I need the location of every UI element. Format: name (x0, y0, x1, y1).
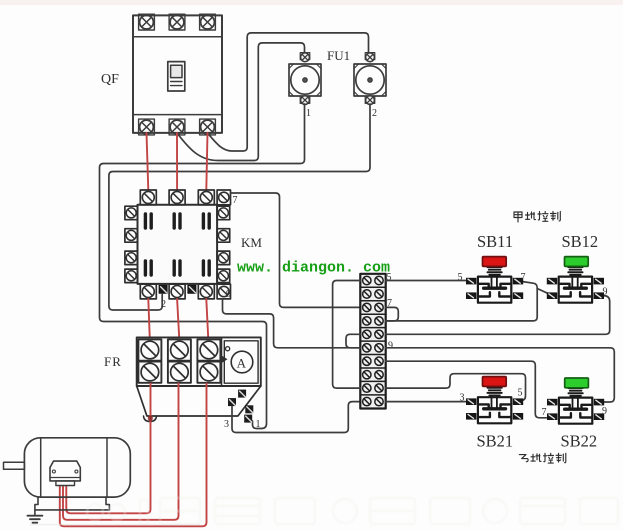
FR small indicator screw (226, 347, 230, 351)
red junction blob at FR foot (148, 416, 153, 421)
faint bottom watermark remnant (87, 498, 618, 524)
QF top terminal screw 2 (169, 14, 185, 30)
svg-text:2: 2 (372, 108, 377, 119)
wire phase L1 QF to KM (red) (147, 133, 149, 190)
FR aux contact screw b (pin 3) (228, 398, 236, 406)
wire motor W FR to motor (red) (60, 384, 207, 527)
faint pink top strip (0, 0, 623, 5)
svg-text:9: 9 (602, 406, 607, 417)
motor shaft (4, 462, 25, 469)
wire SB11 right to SB12 left (diagonal) (537, 289, 551, 295)
wire net7 block row4 to SB11 right (386, 282, 538, 321)
wire QF L3 to FU1-2 top (208, 33, 369, 151)
svg-text:5: 5 (518, 388, 523, 399)
fuse FU1-1 (289, 53, 321, 105)
wire phase T2 KM to FR (red) (177, 299, 179, 340)
push button SB12 (green start, site A) (547, 267, 604, 303)
svg-text:SB12: SB12 (562, 232, 599, 251)
KM coil screw A2 (pin 2) (159, 285, 167, 293)
KM top terminal block 3 (198, 190, 214, 205)
FR big terminal screw r2c1 (138, 362, 161, 383)
KM bottom terminal block 1 (140, 284, 156, 299)
wire net1 FU1-1 bottom to FR terminal 1 (100, 104, 305, 429)
KM main contact bars top row (145, 214, 209, 228)
wire net3 block row10 to SB21 left (386, 401, 466, 403)
svg-text:QF: QF (101, 72, 119, 87)
svg-text:FU1: FU1 (327, 48, 350, 63)
QF toggle handle (168, 62, 185, 91)
terminal block XT (360, 274, 385, 409)
jumper block row3 to row4 (right hook, net7) (386, 307, 399, 321)
FR big terminal screw r1c2 (168, 339, 191, 360)
KM bottom terminal block 3 (198, 284, 214, 299)
contactor KM body (138, 205, 218, 284)
SB22 green cap (565, 378, 589, 388)
KM top terminal block 1 (140, 190, 156, 205)
svg-text:9: 9 (388, 341, 393, 352)
motor M body (24, 438, 130, 497)
KM aux terminal top-right (pin 7) (217, 190, 230, 205)
svg-text:5: 5 (458, 272, 463, 283)
wire motor V FR to motor (red) (63, 384, 179, 520)
FR big terminal screw r1c1 (138, 339, 161, 360)
QF top terminal screw 3 (200, 14, 216, 30)
push button SB22 (green start, site B) (547, 388, 604, 424)
KM main contact bars bottom row (145, 261, 209, 275)
wire net9 KM aux 9 to terminal block row 6 (223, 299, 361, 348)
motor terminal box (50, 461, 80, 485)
label 乙地控制 (site B control) (519, 453, 566, 463)
label 甲地控制 (site A control) (514, 212, 560, 223)
svg-text:www. diangon. com: www. diangon. com (237, 260, 390, 277)
FR arrow marker (222, 356, 228, 363)
KM coil screw A1 (188, 285, 196, 293)
wire motor U FR to motor (red) (66, 384, 150, 514)
motor end bell lines (40, 438, 42, 497)
wire net2 FU1-2 bottom to KM coil terminal 2 (109, 104, 370, 310)
wire phase L2 QF to KM (red) (176, 133, 178, 190)
FR big terminal screw r1c3 (197, 339, 220, 360)
KM bottom terminal block 2 (169, 284, 185, 299)
wire net9 SB12 right to block row5 (386, 296, 610, 335)
SB11 red cap (483, 257, 507, 267)
jumper block row1 to row9 (left loop, net5) (333, 281, 361, 389)
jumper block row5 to row6 (left U, net9) (346, 334, 360, 348)
QF bottom terminal screw 3 (200, 119, 216, 135)
svg-text:2: 2 (161, 299, 166, 310)
KM right terminal column (217, 206, 230, 282)
QF bottom terminal screw 1 (139, 119, 155, 135)
wire phase T1 KM to FR (red) (148, 299, 150, 340)
FR adjustment dial A (224, 341, 258, 383)
QF bottom terminal screw 2 (169, 119, 185, 135)
wire QF L2 to FU1-1 top (177, 43, 305, 161)
SB12 green cap (565, 257, 589, 267)
push button SB11 (red stop, site A) (466, 267, 523, 303)
ground symbol (27, 510, 42, 523)
push button SB21 (red stop, site B) (466, 388, 523, 424)
circuit breaker QF body (133, 15, 222, 132)
FR aux contact screw a (238, 390, 246, 398)
wire net5 block row1 to SB11 left (386, 280, 466, 282)
thermal relay FR body (137, 337, 261, 386)
svg-text:A: A (237, 356, 247, 371)
svg-text:3: 3 (460, 393, 465, 404)
svg-text:7: 7 (521, 272, 526, 283)
svg-text:SB22: SB22 (561, 432, 598, 451)
FR skirt (137, 386, 261, 416)
QF top terminal screw 1 (139, 14, 155, 30)
KM top terminal block 2 (169, 190, 185, 205)
wire net7 KM aux 7 to terminal block row 3 (231, 193, 361, 307)
svg-text:7: 7 (542, 407, 547, 418)
svg-text:9: 9 (603, 287, 608, 298)
motor base (35, 497, 110, 510)
svg-text:1: 1 (306, 108, 311, 119)
wire net7 block row7 to SB22 left (386, 361, 547, 418)
KM aux terminal bottom-right (pin 9) (217, 284, 230, 299)
fuse FU1-2 (354, 53, 386, 105)
FR aux contact screw d (pin 1) (244, 415, 252, 423)
svg-text:1: 1 (256, 419, 261, 430)
svg-text:9: 9 (226, 289, 231, 300)
FR aux contact screw c (245, 405, 253, 413)
wire net3 FR to terminal block row 10 (232, 402, 360, 433)
FR big terminal screw r2c3 (197, 362, 220, 383)
svg-text:7: 7 (233, 195, 238, 206)
wire phase T3 KM to FR (red) (206, 299, 208, 340)
svg-text:SB11: SB11 (477, 232, 513, 251)
SB21 red cap (483, 377, 507, 387)
FR skirt foot (144, 416, 157, 422)
KM left terminal column (125, 206, 138, 282)
wire net9 block row6 to SB22 right (386, 348, 615, 402)
wire net5 block row9 to SB21 right (386, 374, 526, 401)
svg-text:KM: KM (241, 235, 262, 250)
FR big terminal screw r2c2 (168, 362, 191, 383)
svg-text:FR: FR (104, 354, 122, 369)
svg-text:SB21: SB21 (477, 432, 514, 451)
svg-text:3: 3 (224, 419, 229, 430)
wire phase L3 QF to KM (red) (206, 133, 207, 190)
